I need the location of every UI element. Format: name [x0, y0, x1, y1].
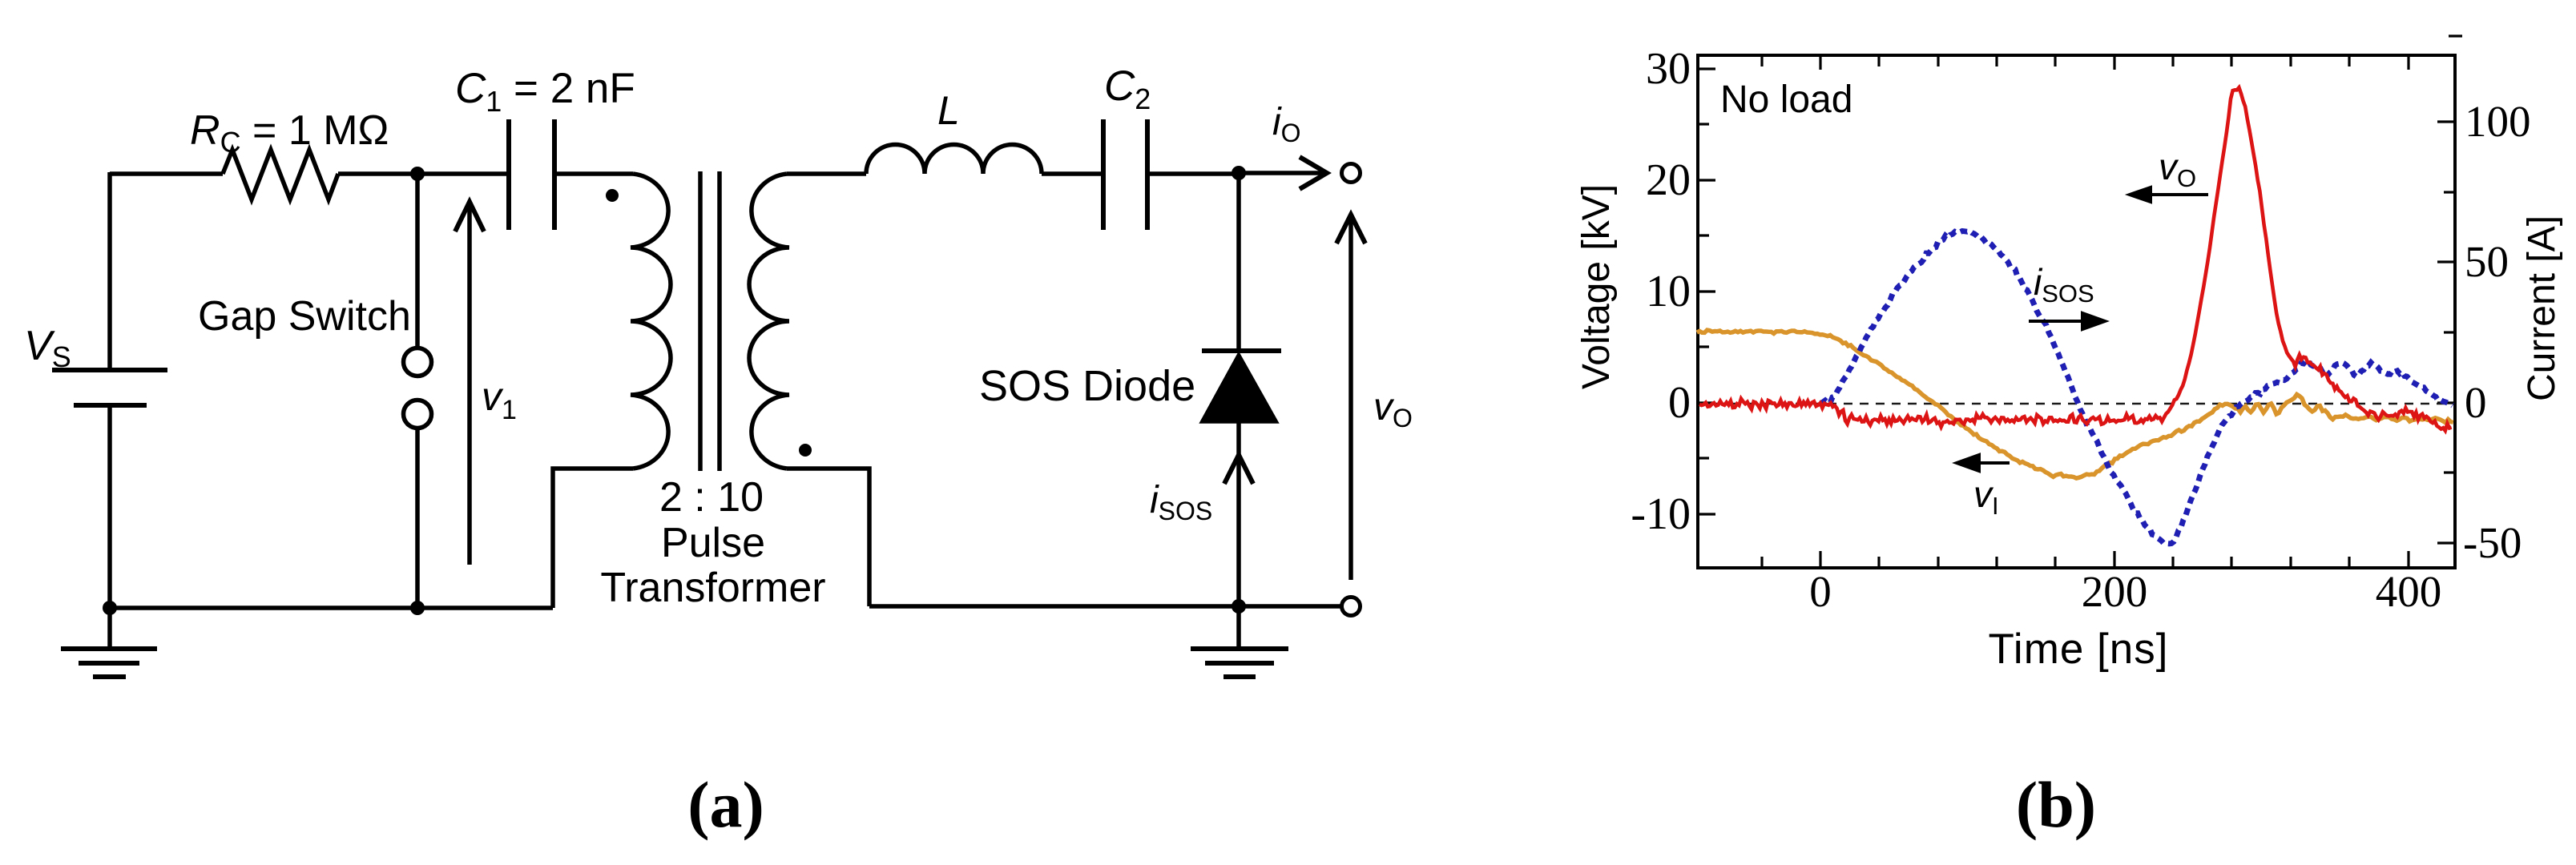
arrowhead isos (open chevron, pointing up): [1224, 455, 1253, 484]
svg-text:2 : 10: 2 : 10: [659, 474, 764, 521]
capacitor C1 (two plates): [509, 119, 554, 230]
wire: left vertical from top wire down to battery + plate: [107, 172, 112, 370]
arrowhead io (open chevron, pointing right): [1300, 157, 1327, 189]
wire: SOS diode branch vertical (node to cathode bar): [1236, 174, 1241, 352]
svg-text:RC = 1 MΩ: RC = 1 MΩ: [190, 107, 389, 159]
svg-text:vO: vO: [1373, 386, 1413, 432]
wire: secondary bottom return, right then down to output ground bus: [787, 469, 869, 606]
left axis minor ticks: [1699, 123, 1709, 125]
y tick labels (kV): [1631, 44, 1691, 539]
wire: C2 to output node: [1147, 171, 1239, 176]
svg-text:Voltage [kV]: Voltage [kV]: [1575, 184, 1618, 389]
x tick labels (ns): [1809, 567, 2441, 616]
bottom axis minor ticks: [1760, 557, 1763, 566]
svg-text:C1 = 2 nF: C1 = 2 nF: [455, 65, 635, 118]
wire: output ground bus to bottom terminal: [869, 604, 1341, 609]
gap switch wire upper: [415, 174, 420, 348]
v1 measurement arrow (vertical, open chevron up): [467, 202, 472, 565]
junction node: diode / ground bus: [1232, 599, 1246, 614]
output terminal circle (top, io/vo+): [1342, 164, 1361, 183]
right axis major ticks (current 100,50,0,-50 A): [2437, 120, 2453, 123]
svg-text:Pulse: Pulse: [661, 520, 765, 566]
svg-text:200: 200: [2082, 567, 2148, 616]
svg-text:10: 10: [1646, 267, 1691, 316]
vo measurement arrow (vertical, open chevron up): [1348, 215, 1353, 580]
wire: inductor to capacitor C2: [1042, 171, 1103, 176]
wire: resistor to capacitor C1, through junction node: [338, 171, 509, 176]
battery VS bottom plate (short, -): [74, 403, 147, 408]
SOS diode triangle (anode, pointing up): [1203, 356, 1276, 421]
svg-text:0: 0: [2465, 378, 2487, 427]
svg-text:VS: VS: [24, 323, 71, 373]
svg-text:(a): (a): [687, 768, 764, 841]
bottom axis major ticks (0,200,400 ns): [1819, 551, 1821, 566]
wire: right ground stem: [1236, 606, 1241, 649]
svg-text:L: L: [937, 88, 960, 133]
wire: battery - plate down to ground bus: [107, 405, 112, 608]
right axis minor ticks: [2449, 34, 2462, 37]
plot frame: [1698, 55, 2455, 568]
svg-text:-10: -10: [1631, 489, 1691, 539]
svg-text:Current [A]: Current [A]: [2521, 215, 2563, 401]
ground symbol (source side): [61, 649, 157, 677]
svg-text:20: 20: [1646, 155, 1691, 205]
svg-text:vI: vI: [1973, 473, 1999, 520]
svg-text:C2: C2: [1104, 62, 1151, 115]
svg-text:0: 0: [1668, 378, 1691, 428]
resistor RC (zigzag): [223, 150, 338, 199]
svg-text:SOS Diode: SOS Diode: [979, 362, 1195, 410]
svg-text:-50: -50: [2463, 518, 2522, 567]
svg-text:400: 400: [2376, 567, 2442, 616]
svg-text:30: 30: [1646, 44, 1691, 94]
wire: output node to io arrow toward terminal: [1239, 171, 1324, 175]
svg-text:Time [ns]: Time [ns]: [1989, 626, 2169, 673]
isos curve (blue dashed trace): [1820, 231, 2453, 544]
transformer polarity dot (primary): [606, 189, 619, 202]
transformer polarity dot (secondary): [799, 444, 812, 457]
output terminal circle (bottom, vo-): [1342, 597, 1361, 616]
transformer T1 primary winding (2 turns side): [631, 174, 671, 469]
gap switch wire lower to ground bus: [415, 428, 420, 608]
svg-text:(b): (b): [2016, 768, 2096, 841]
capacitor C2 (two plates): [1103, 119, 1147, 230]
wire: left ground bus: [110, 605, 553, 610]
svg-text:iO: iO: [1272, 101, 1301, 147]
gap switch electrode circles: [404, 348, 432, 428]
junction node: C2 / diode / io: [1232, 166, 1246, 180]
vo curve (red trace): [1699, 87, 2452, 430]
v1 curve (orange trace): [1697, 330, 2453, 478]
battery VS top plate (long, +): [52, 368, 167, 372]
transformer T1 secondary winding (10 turns side): [749, 174, 789, 469]
svg-text:Transformer: Transformer: [600, 565, 825, 611]
svg-text:v1: v1: [482, 374, 517, 425]
inductor L (3 arcs): [866, 144, 1042, 174]
left axis major ticks (voltage 30,20,10,0,-10 kV): [1699, 67, 1715, 70]
zero reference dashed line: [1699, 403, 2453, 405]
junction node: resistor / C1 / gap switch: [410, 167, 425, 181]
svg-text:100: 100: [2465, 97, 2531, 146]
svg-text:iSOS: iSOS: [2034, 261, 2094, 308]
SOS diode cathode bar: [1202, 348, 1281, 353]
wire: left ground stem: [107, 608, 112, 649]
svg-text:iSOS: iSOS: [1150, 479, 1212, 525]
wire: primary bottom return, left then down to ground bus: [553, 469, 633, 608]
wire: C1 right plate to transformer primary: [554, 171, 633, 176]
wire: top-left horizontal from source branch to resistor: [110, 171, 223, 176]
wire: secondary top to inductor L: [787, 171, 866, 176]
ground symbol (output side): [1191, 649, 1288, 677]
wire: diode anode down to output ground bus, carries isos: [1236, 421, 1241, 606]
svg-text:vO: vO: [2159, 146, 2196, 192]
junction node: gap switch / ground bus: [410, 601, 425, 615]
junction node: battery / ground bus: [103, 601, 117, 615]
svg-text:Gap Switch: Gap Switch: [198, 293, 411, 340]
y2 tick labels (A): [2463, 97, 2531, 567]
top axis ticks: [1760, 57, 1763, 66]
svg-text:No load: No load: [1720, 78, 1852, 121]
transformer core (two bars): [700, 171, 720, 471]
svg-text:0: 0: [1809, 567, 1832, 616]
svg-text:50: 50: [2465, 237, 2509, 286]
